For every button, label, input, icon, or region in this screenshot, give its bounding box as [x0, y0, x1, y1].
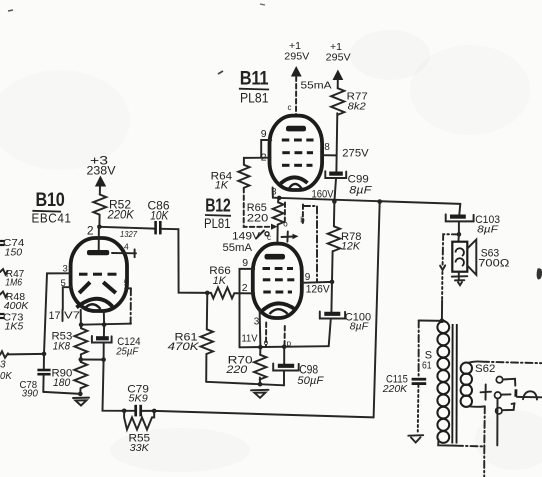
svg-text:2: 2	[87, 224, 94, 238]
svg-text:o: o	[264, 338, 269, 347]
B12 grid dashes row2	[263, 278, 295, 281]
svg-text:4: 4	[124, 242, 129, 252]
S62 actuator cross	[481, 385, 491, 400]
cathode wire	[81, 324, 131, 325]
B11 grid dashes row1	[282, 139, 314, 142]
speck top-middle	[260, 4, 265, 5]
tube B12 envelope	[253, 244, 302, 318]
B11 heater pin dash a	[283, 203, 288, 229]
B11 anode plate	[286, 126, 306, 132]
dash-dot from secondary bottom down	[456, 406, 485, 477]
svg-text:1K5: 1K5	[5, 320, 24, 332]
node speaker	[457, 232, 462, 237]
power +1 295V left arrow (boost)	[284, 40, 309, 116]
svg-text:B10: B10	[36, 190, 65, 211]
resistor R61	[168, 329, 213, 382]
wire C124 bottom down to feedback line	[103, 360, 125, 411]
capacitor C73 label left edge	[0, 312, 24, 333]
wire B10 pin5 down to V7 point	[63, 287, 72, 310]
160V rail wire	[273, 198, 460, 204]
transformer primary bottom lead	[438, 440, 456, 446]
B11 heater pin dash b	[300, 205, 305, 225]
svg-text:2: 2	[242, 282, 248, 294]
power +1 295V right arrow	[326, 41, 351, 88]
svg-text:295V: 295V	[326, 51, 351, 63]
ground wire R61/R70/C98	[206, 382, 284, 386]
svg-text:5: 5	[124, 278, 129, 288]
B12 heater pin dash o	[264, 323, 269, 348]
svg-text:o: o	[283, 220, 288, 229]
wire pin5' dash-dot down	[125, 288, 131, 323]
wire C86 to grid corner of B12	[162, 229, 208, 293]
svg-text:220K: 220K	[382, 383, 408, 395]
ground symbol below R70	[251, 390, 269, 398]
resistor R65	[247, 198, 284, 244]
svg-text:B12: B12	[205, 196, 231, 216]
wire node to C86	[99, 227, 154, 229]
B12 pin 9/2 bracket wire	[240, 269, 255, 347]
wire R66 node down to R61	[206, 293, 209, 329]
resistor R47 label left edge	[0, 268, 24, 289]
svg-text:c: c	[267, 233, 271, 242]
speck top-left	[8, 10, 13, 11]
B11 grid dashes row2	[282, 151, 313, 154]
svg-text:55mA: 55mA	[223, 242, 253, 254]
svg-text:0K: 0K	[0, 371, 13, 382]
power +3 238V arrow	[87, 154, 116, 195]
svg-text:25µF: 25µF	[115, 346, 138, 358]
wire B10 pin3 to left column	[44, 273, 70, 354]
B12 grid dashes row1	[263, 267, 294, 270]
B10 heater arc	[84, 304, 101, 309]
B12 grid dashes row3	[263, 291, 292, 294]
svg-text:1327: 1327	[120, 230, 138, 239]
svg-text:8µF: 8µF	[349, 184, 372, 196]
B12 cathode bottom wire	[240, 346, 329, 347]
S62 contact middle	[495, 389, 517, 398]
feedback wire vertical from 160V rail	[374, 202, 380, 418]
tube B10 envelope	[71, 238, 127, 311]
node cathode R53/R90	[79, 357, 84, 362]
ground under speaker	[452, 272, 468, 286]
wire rail corner down to C103	[459, 204, 460, 215]
measuring point 17 V7	[49, 310, 81, 325]
capacitor C124	[92, 325, 141, 360]
svg-text:PL81: PL81	[240, 91, 269, 106]
svg-text:10K: 10K	[150, 208, 169, 222]
svg-text:390: 390	[22, 388, 38, 400]
capacitor C78	[20, 354, 51, 400]
B11 cathode arc	[281, 177, 308, 183]
node transformer top	[440, 318, 445, 323]
svg-text:295V: 295V	[284, 50, 309, 62]
svg-text:220K: 220K	[107, 207, 135, 221]
svg-text:8k2: 8k2	[348, 100, 366, 112]
svg-text:9: 9	[242, 257, 248, 269]
svg-text:5K9: 5K9	[129, 393, 148, 405]
resistor R52	[93, 195, 134, 227]
mark o' at B12 top cap	[257, 231, 270, 239]
svg-text:1K: 1K	[215, 179, 229, 191]
transformer S61 label	[422, 350, 432, 372]
B12 pin 3 lead	[259, 309, 262, 347]
mark cross-arrow at B12 top	[282, 232, 299, 242]
node grid of B10 / junction	[97, 225, 102, 230]
dash-dot from secondary top to right edge	[482, 362, 542, 364]
B10 pin 4 lead with + mark	[112, 242, 136, 258]
svg-text:55mA: 55mA	[301, 79, 332, 91]
B10 pin 2 lead	[98, 227, 100, 251]
svg-text:470K: 470K	[168, 341, 200, 353]
svg-text:180: 180	[53, 377, 71, 389]
dashed link R64 to B12 top cap node	[244, 188, 278, 230]
svg-text:9: 9	[305, 272, 311, 283]
tube B12 label	[204, 196, 231, 231]
capacitor C79	[124, 383, 154, 416]
B10 diode plate right	[103, 282, 116, 293]
left edge fragment labels 3 / 0K	[0, 360, 13, 383]
wire left edge to junction with resistor fragment	[0, 351, 44, 358]
blob at right edge	[537, 268, 542, 279]
svg-text:3: 3	[0, 360, 6, 371]
svg-text:160V: 160V	[312, 189, 335, 201]
S62 wire middle contact down	[496, 399, 498, 446]
wire R53 bottom to C124 bottom	[81, 359, 104, 361]
svg-text:150: 150	[5, 247, 23, 259]
svg-text:S62: S62	[475, 363, 495, 375]
node C79 right	[152, 409, 157, 414]
B10 cathode arc	[77, 299, 113, 308]
B12 heater pin dash p	[285, 326, 292, 348]
svg-text:B11: B11	[240, 69, 269, 90]
S62 jack dome contact	[517, 391, 542, 399]
capacitor C74 label left edge	[0, 237, 24, 259]
B11 heater arc	[289, 184, 302, 189]
tube B10 label	[32, 190, 72, 226]
node pin3 column junction	[42, 352, 47, 357]
wire node to speaker	[457, 234, 460, 241]
svg-text:33K: 33K	[130, 442, 150, 454]
svg-text:b: b	[300, 216, 305, 225]
svg-text:1K8: 1K8	[53, 340, 71, 352]
S62 contact top	[496, 377, 515, 386]
open ground mark below C115	[408, 435, 423, 442]
B12 anode plate	[265, 254, 286, 260]
B12 cathode arc	[263, 303, 297, 310]
S62 contact bottom	[496, 403, 515, 414]
B12 pin 9 anode wire to 126V node	[301, 281, 332, 284]
ground under R90	[73, 398, 89, 406]
resistor R78	[328, 202, 362, 282]
speck left of B11 label	[218, 71, 223, 74]
svg-text:220: 220	[247, 212, 268, 224]
capacitor C86	[148, 199, 170, 235]
svg-text:149V: 149V	[232, 230, 261, 242]
resistor R48 label left edge	[0, 291, 29, 312]
B11 pin 9/2 bracket wire	[261, 140, 271, 158]
svg-text:8µF: 8µF	[477, 223, 498, 235]
dash-dot link from speaker node	[440, 234, 459, 321]
capacitor C115 on dotted branch	[382, 321, 426, 432]
resistor R70	[225, 347, 266, 384]
B10 anode plate	[87, 250, 109, 255]
B10 grid dashes	[79, 273, 117, 276]
svg-text:12K: 12K	[341, 241, 361, 253]
svg-text:8: 8	[324, 142, 330, 153]
transformer S61 secondary winding	[461, 361, 485, 406]
svg-text:PL81: PL81	[204, 216, 231, 231]
capacitor C98	[273, 347, 324, 387]
wire C78 ground to R90 node	[43, 392, 80, 394]
resistor R64	[211, 165, 250, 192]
svg-text:c: c	[288, 103, 292, 112]
svg-text:8µF: 8µF	[350, 320, 369, 332]
svg-text:61: 61	[422, 361, 432, 372]
B11 grid dashes row3	[282, 164, 313, 167]
svg-text:11V: 11V	[242, 332, 258, 344]
svg-text:9: 9	[261, 128, 267, 140]
node R90 ground	[78, 392, 83, 397]
capacitor C99	[325, 171, 372, 201]
B11 pin 8 wire	[322, 154, 336, 156]
resistor R53	[52, 325, 88, 360]
svg-text:126V: 126V	[306, 284, 331, 296]
svg-text:275V: 275V	[342, 147, 369, 159]
dash-dot screen link B12	[303, 206, 317, 282]
resistor R90	[52, 360, 88, 394]
resistor R55	[124, 411, 154, 454]
loudspeaker S63	[452, 240, 509, 275]
capacitor C100	[320, 282, 371, 346]
tube B11 label	[239, 69, 269, 106]
B10 diode plate left	[79, 282, 90, 293]
svg-text:EBC41: EBC41	[32, 211, 72, 226]
svg-text:700Ω: 700Ω	[478, 257, 509, 269]
B11 pin 3 lead	[272, 188, 274, 198]
feedback wire bottom to R55/C79	[154, 411, 373, 418]
resistor R66	[205, 265, 254, 299]
svg-text:V7: V7	[64, 310, 80, 322]
B11 pin 2 wire to R64	[244, 158, 271, 165]
resistor R77	[331, 88, 368, 171]
svg-text:50µF: 50µF	[297, 375, 324, 387]
transformer S61 core	[452, 324, 457, 444]
transformer S61 primary winding	[437, 321, 449, 443]
capacitor C103	[446, 214, 500, 236]
wire transformer top	[419, 320, 445, 322]
svg-text:220: 220	[225, 364, 248, 376]
tube B11 envelope	[270, 116, 323, 190]
svg-text:238V: 238V	[87, 164, 116, 178]
svg-text:1M6: 1M6	[5, 277, 22, 289]
B12 heater arc	[270, 309, 288, 314]
svg-text:p: p	[287, 339, 292, 348]
svg-text:1K: 1K	[213, 275, 227, 287]
B10 cathode lead	[103, 311, 105, 325]
node C79 left	[122, 409, 127, 414]
svg-text:17: 17	[49, 310, 61, 322]
svg-text:400K: 400K	[4, 300, 30, 312]
